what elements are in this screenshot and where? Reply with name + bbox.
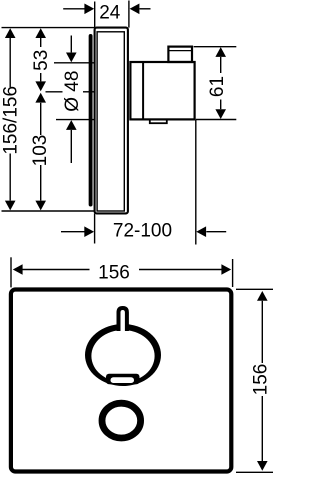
handle body + sleeve: [130, 47, 194, 120]
temperature marker tab: [119, 308, 127, 331]
dim 156/156 (left): [5, 28, 16, 210]
dim 156 (front top): [13, 264, 231, 275]
wall seal bar: [89, 36, 93, 205]
small knob ring: [102, 403, 141, 438]
svg-text:24: 24: [99, 2, 121, 23]
dim 53 / 103 (second line): [35, 28, 46, 210]
svg-text:156: 156: [251, 364, 272, 396]
svg-text:156/156: 156/156: [1, 86, 22, 155]
plate outer rect (side view): [95, 28, 128, 214]
svg-text:103: 103: [30, 135, 51, 167]
extension lines (front view): [11, 257, 273, 472]
svg-text:156: 156: [98, 262, 130, 283]
big handle ring: [85, 324, 161, 386]
bottom tab under body: [150, 120, 167, 124]
svg-text:61: 61: [207, 76, 228, 97]
svg-text:53: 53: [31, 50, 52, 71]
dim 61 (right): [215, 47, 226, 119]
extension lines (side view): [2, 1, 237, 245]
dim 72-100 (bottom): [61, 226, 226, 237]
front plate: [11, 290, 231, 472]
dim diameter 48: [66, 36, 77, 164]
plate inner rect: [97, 32, 124, 211]
svg-text:72-100: 72-100: [113, 221, 172, 242]
svg-text:Ø 48: Ø 48: [62, 71, 83, 112]
handle cap: [168, 47, 192, 62]
dim 24 (top): [63, 4, 150, 15]
dim 156 (front right): [257, 291, 268, 471]
bottom bump with slot: [106, 374, 140, 385]
